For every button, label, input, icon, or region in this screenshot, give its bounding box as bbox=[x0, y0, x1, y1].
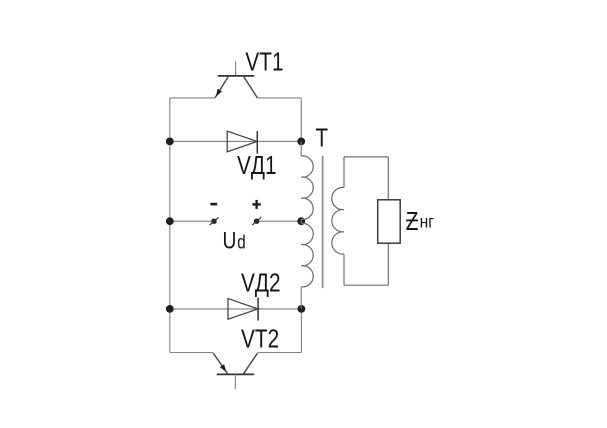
svg-text:VД1: VД1 bbox=[237, 151, 277, 180]
transformer T primary winding bbox=[301, 141, 313, 309]
wire bottom-left horizontal bbox=[170, 352, 213, 354]
svg-text:VT2: VT2 bbox=[241, 324, 279, 353]
svg-text:U: U bbox=[223, 226, 237, 254]
node dot left VD1 bbox=[166, 138, 174, 146]
wire Ud row right bbox=[259, 220, 302, 222]
wire right vertical top bbox=[300, 98, 302, 141]
terminal minus bbox=[210, 217, 219, 225]
wire VD2 row bbox=[170, 308, 302, 310]
node dot right VD1 / primary top bbox=[297, 138, 305, 146]
plus sign bbox=[252, 200, 260, 209]
wire bottom-right horizontal bbox=[258, 352, 302, 354]
svg-text:VT1: VT1 bbox=[245, 47, 283, 76]
svg-text:d: d bbox=[237, 231, 245, 253]
label Znr bbox=[406, 207, 434, 236]
diode VD1 bbox=[227, 131, 257, 154]
transformer secondary winding bbox=[332, 157, 389, 285]
wire Ud row left bbox=[170, 220, 212, 222]
node dot left VD2 bbox=[166, 305, 174, 313]
svg-text:нг: нг bbox=[420, 211, 434, 231]
wire top-left horizontal bbox=[170, 97, 215, 99]
diode VD2 bbox=[228, 298, 258, 321]
transistor VT1 bbox=[215, 61, 257, 98]
terminal plus bbox=[252, 217, 261, 225]
svg-text:T: T bbox=[315, 123, 328, 152]
transformer core bbox=[322, 156, 324, 288]
wire top-right horizontal bbox=[257, 97, 301, 99]
node dot left Ud bbox=[166, 217, 174, 225]
node dot right VD2 / primary bottom bbox=[298, 305, 306, 313]
svg-text:VД2: VД2 bbox=[241, 269, 281, 298]
wire right vertical bottom bbox=[300, 309, 302, 353]
minus sign bbox=[210, 203, 217, 206]
resistor Znr load bbox=[378, 200, 401, 243]
wire VD1 row bbox=[170, 140, 301, 142]
wire left rail bbox=[169, 98, 171, 353]
transistor VT2 bbox=[213, 353, 257, 389]
node dot center tap bbox=[297, 217, 305, 225]
label Ud bbox=[223, 226, 246, 254]
